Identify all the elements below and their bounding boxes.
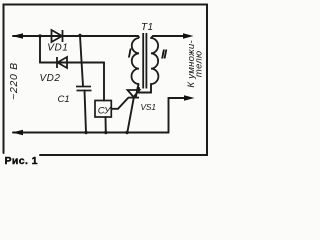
control unit SU box <box>95 101 111 118</box>
svg-text:VS1: VS1 <box>141 102 156 112</box>
svg-text:~220 В: ~220 В <box>8 62 20 100</box>
wire SU bottom <box>105 117 107 133</box>
wire bottom line <box>13 132 169 134</box>
node dot SU bottom <box>104 131 107 134</box>
wire VD2 row <box>40 62 104 64</box>
diode VD1 <box>52 30 63 42</box>
border frame <box>4 5 208 156</box>
capacitor C1 <box>76 87 92 91</box>
label to multiplier <box>186 40 204 88</box>
wire top line <box>13 35 138 37</box>
diode VD2 <box>57 57 67 68</box>
svg-text:Рис. 1: Рис. 1 <box>5 155 38 167</box>
svg-text:VD1: VD1 <box>47 43 68 54</box>
wire right upper output <box>151 36 184 38</box>
wire primary top join <box>138 36 139 38</box>
node dot C1 bottom <box>84 131 87 134</box>
node dot top-left <box>38 34 41 37</box>
node dot VS1 bottom <box>125 131 128 134</box>
svg-text:С1: С1 <box>58 94 70 105</box>
svg-text:VD2: VD2 <box>40 73 61 84</box>
transformer T1 primary winding <box>132 38 139 84</box>
svg-text:Т1: Т1 <box>141 22 153 33</box>
thyristor VS1 <box>128 90 140 98</box>
transformer T1 secondary winding <box>151 38 158 84</box>
arrow lower output <box>184 95 195 101</box>
arrow top-left <box>12 33 23 39</box>
svg-text:СУ: СУ <box>98 106 111 117</box>
wire VS1 cathode <box>127 98 134 133</box>
wire VS1 anode <box>136 84 139 97</box>
wire right lower output <box>169 98 187 133</box>
arrow upper output <box>183 33 194 39</box>
wire SU gate to VS1 <box>111 98 128 109</box>
arrow bottom-left <box>12 130 23 136</box>
transformer T1 core <box>143 33 146 89</box>
svg-text:I: I <box>128 46 132 61</box>
wire C1 column lower <box>85 91 87 133</box>
wire SU top <box>103 63 105 101</box>
wire left branch vertical <box>39 36 41 63</box>
node dot transformer junction <box>137 87 140 90</box>
node dot C1 top <box>78 34 81 37</box>
svg-text:телю: телю <box>193 51 204 78</box>
wire secondary bottom L <box>137 84 151 93</box>
wire C1 column upper <box>80 36 83 86</box>
